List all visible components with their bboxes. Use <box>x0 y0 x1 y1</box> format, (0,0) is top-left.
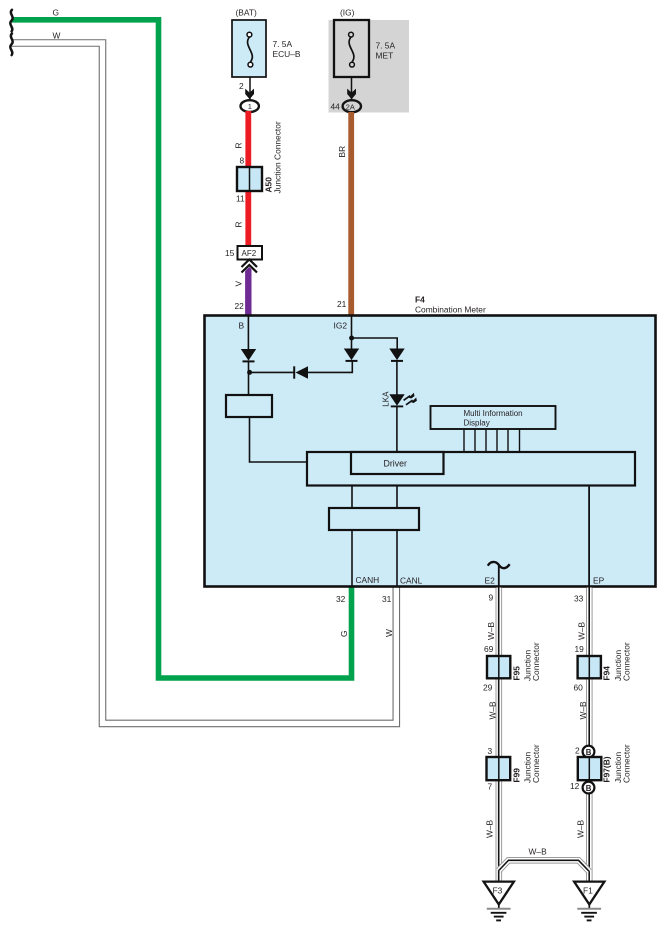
link wire W-B horizontal <box>499 860 590 871</box>
wire from pin IG2 down <box>351 316 353 349</box>
svg-text:F1: F1 <box>583 886 593 896</box>
svg-text:EP: EP <box>593 576 605 586</box>
diode D2 <box>344 349 359 361</box>
node B junction dot <box>349 336 354 341</box>
arrow into connector 2A <box>347 89 356 100</box>
wire D3 to LED <box>396 361 398 395</box>
svg-text:7. 5A: 7. 5A <box>273 39 293 49</box>
svg-text:22: 22 <box>235 301 245 311</box>
junction connector F99 <box>487 757 511 780</box>
svg-text:Display: Display <box>464 419 490 428</box>
svg-text:32: 32 <box>336 594 346 604</box>
svg-text:V: V <box>234 281 244 287</box>
junction connector F97(B) <box>578 757 602 780</box>
svg-text:Connector: Connector <box>531 744 541 783</box>
CAN transceiver box <box>329 508 419 530</box>
svg-text:Connector: Connector <box>622 642 632 681</box>
mating chevrons below AF2 <box>242 263 258 271</box>
svg-text:B: B <box>586 784 592 793</box>
wire from fuse MET to connector 2A <box>351 77 353 100</box>
svg-text:2: 2 <box>239 81 244 91</box>
svg-text:1: 1 <box>248 102 252 111</box>
svg-text:33: 33 <box>574 594 584 604</box>
diode D4 (points left) <box>293 366 295 378</box>
fuse MET element <box>349 37 354 62</box>
svg-text:R: R <box>234 221 244 227</box>
wire LED to driver box <box>396 406 398 452</box>
wire E2 <box>498 566 500 586</box>
wire BR (brown) from 2A to pin 21 <box>348 112 354 316</box>
svg-text:G: G <box>339 630 349 637</box>
ground F1 <box>574 882 604 905</box>
wire D4 to IG2 branch <box>308 361 353 372</box>
wire node B to diode D3 branch <box>352 338 398 349</box>
node A junction dot <box>247 370 252 375</box>
break squiggle on wire W <box>10 34 12 56</box>
svg-text:W: W <box>384 629 394 637</box>
diode D3 <box>389 349 404 361</box>
svg-text:Combination Meter: Combination Meter <box>415 305 486 315</box>
svg-text:31: 31 <box>382 594 392 604</box>
connector AF2 box <box>238 246 263 260</box>
svg-text:(BAT): (BAT) <box>236 8 257 18</box>
svg-text:F97(B): F97(B) <box>602 756 612 782</box>
svg-text:CANL: CANL <box>400 576 423 586</box>
svg-text:Junction Connector: Junction Connector <box>273 121 283 193</box>
wire D1 to node A <box>248 361 250 395</box>
svg-text:21: 21 <box>337 299 347 309</box>
svg-text:2: 2 <box>575 746 580 756</box>
svg-text:LKA: LKA <box>382 391 391 407</box>
svg-text:9: 9 <box>489 593 494 603</box>
svg-text:MET: MET <box>376 51 394 61</box>
LED LKA <box>389 394 404 405</box>
svg-text:W–B: W–B <box>485 819 495 838</box>
svg-text:BR: BR <box>337 146 347 158</box>
gray background panel behind IG fuse <box>329 20 410 113</box>
svg-text:(IG): (IG) <box>340 8 355 18</box>
svg-text:15: 15 <box>225 248 235 258</box>
wire resistor to bus box <box>250 417 308 462</box>
combination meter box <box>205 316 656 587</box>
svg-text:F3: F3 <box>493 886 503 896</box>
junction connector A50 <box>237 167 262 191</box>
svg-text:B: B <box>239 321 245 331</box>
wire G (green) from left edge to CANH pin 32 <box>12 20 352 678</box>
fuse ECU-B element <box>248 37 253 62</box>
connector oval 1 <box>241 100 259 112</box>
svg-text:R: R <box>234 142 244 148</box>
svg-text:Multi Information: Multi Information <box>464 409 523 418</box>
arrow into connector 1 <box>245 89 254 100</box>
svg-text:W–B: W–B <box>488 701 498 720</box>
svg-text:12: 12 <box>570 781 580 791</box>
svg-text:F4: F4 <box>415 295 425 305</box>
wire V (violet) from AF2 to pin 22 <box>245 264 251 316</box>
svg-text:3: 3 <box>488 746 493 756</box>
svg-text:F94: F94 <box>602 666 612 681</box>
svg-text:8: 8 <box>240 156 245 166</box>
ground F3 <box>484 882 514 905</box>
wire W-B left (E2 to ground F3) <box>495 588 502 883</box>
svg-text:IG2: IG2 <box>334 321 348 331</box>
svg-text:AF2: AF2 <box>242 249 257 258</box>
svg-text:7: 7 <box>488 782 493 792</box>
svg-text:F99: F99 <box>512 768 522 783</box>
wire W (white, CANL) outline <box>11 43 396 723</box>
svg-text:69: 69 <box>484 644 494 654</box>
wire from fuse to connector 1 <box>249 77 251 101</box>
connector circle B upper <box>583 746 595 758</box>
svg-text:11: 11 <box>236 194 245 204</box>
svg-text:G: G <box>53 8 60 18</box>
wire node A to diode D4 <box>249 371 295 373</box>
svg-text:W–B: W–B <box>578 701 588 720</box>
wire from pin B to diode D1 <box>247 316 249 350</box>
svg-text:E2: E2 <box>485 576 496 586</box>
wire CANH to pin 32 <box>351 530 353 586</box>
driver box <box>351 452 444 474</box>
fuse ECU-B (BAT) box <box>232 20 266 77</box>
svg-text:Connector: Connector <box>622 744 632 783</box>
diode D1 <box>241 349 256 361</box>
svg-text:F95: F95 <box>512 666 522 681</box>
svg-text:W–B: W–B <box>577 621 587 640</box>
svg-text:7. 5A: 7. 5A <box>376 41 396 51</box>
svg-text:ECU–B: ECU–B <box>273 49 301 59</box>
resistor block (left) <box>226 395 272 417</box>
wire W white core <box>11 43 396 723</box>
svg-text:Connector: Connector <box>531 642 541 681</box>
wire R (red) from oval 1 to AF2 <box>245 111 251 247</box>
svg-text:W–B: W–B <box>486 621 496 640</box>
svg-text:2A: 2A <box>346 102 355 111</box>
wire W-B right (EP to ground F1) <box>586 588 593 883</box>
wire EP from bus box <box>588 486 590 587</box>
wire CANL to pin 31 <box>396 530 398 586</box>
svg-text:60: 60 <box>574 683 584 693</box>
wires bus to CAN box <box>352 486 397 509</box>
junction connector F95 <box>487 656 510 678</box>
svg-text:W–B: W–B <box>576 819 586 838</box>
svg-text:W: W <box>53 31 61 41</box>
break squiggle on wire G <box>10 10 12 32</box>
svg-text:CANH: CANH <box>356 575 380 585</box>
comb wires MID to bus <box>464 429 520 452</box>
break tilde above E2 <box>488 562 510 568</box>
LED emission arrows <box>404 396 411 401</box>
svg-text:44: 44 <box>331 102 341 112</box>
svg-text:29: 29 <box>483 683 493 693</box>
svg-text:19: 19 <box>575 644 585 654</box>
connector oval 2A <box>343 100 361 112</box>
junction connector F94 <box>578 656 601 678</box>
fuse MET (IG) box <box>334 20 369 77</box>
connector circle B lower <box>583 782 595 794</box>
svg-text:Driver: Driver <box>384 459 408 469</box>
svg-text:B: B <box>586 748 592 757</box>
multi information display box <box>431 406 556 429</box>
svg-text:W–B: W–B <box>529 847 548 857</box>
bus box (wide) <box>307 452 635 486</box>
